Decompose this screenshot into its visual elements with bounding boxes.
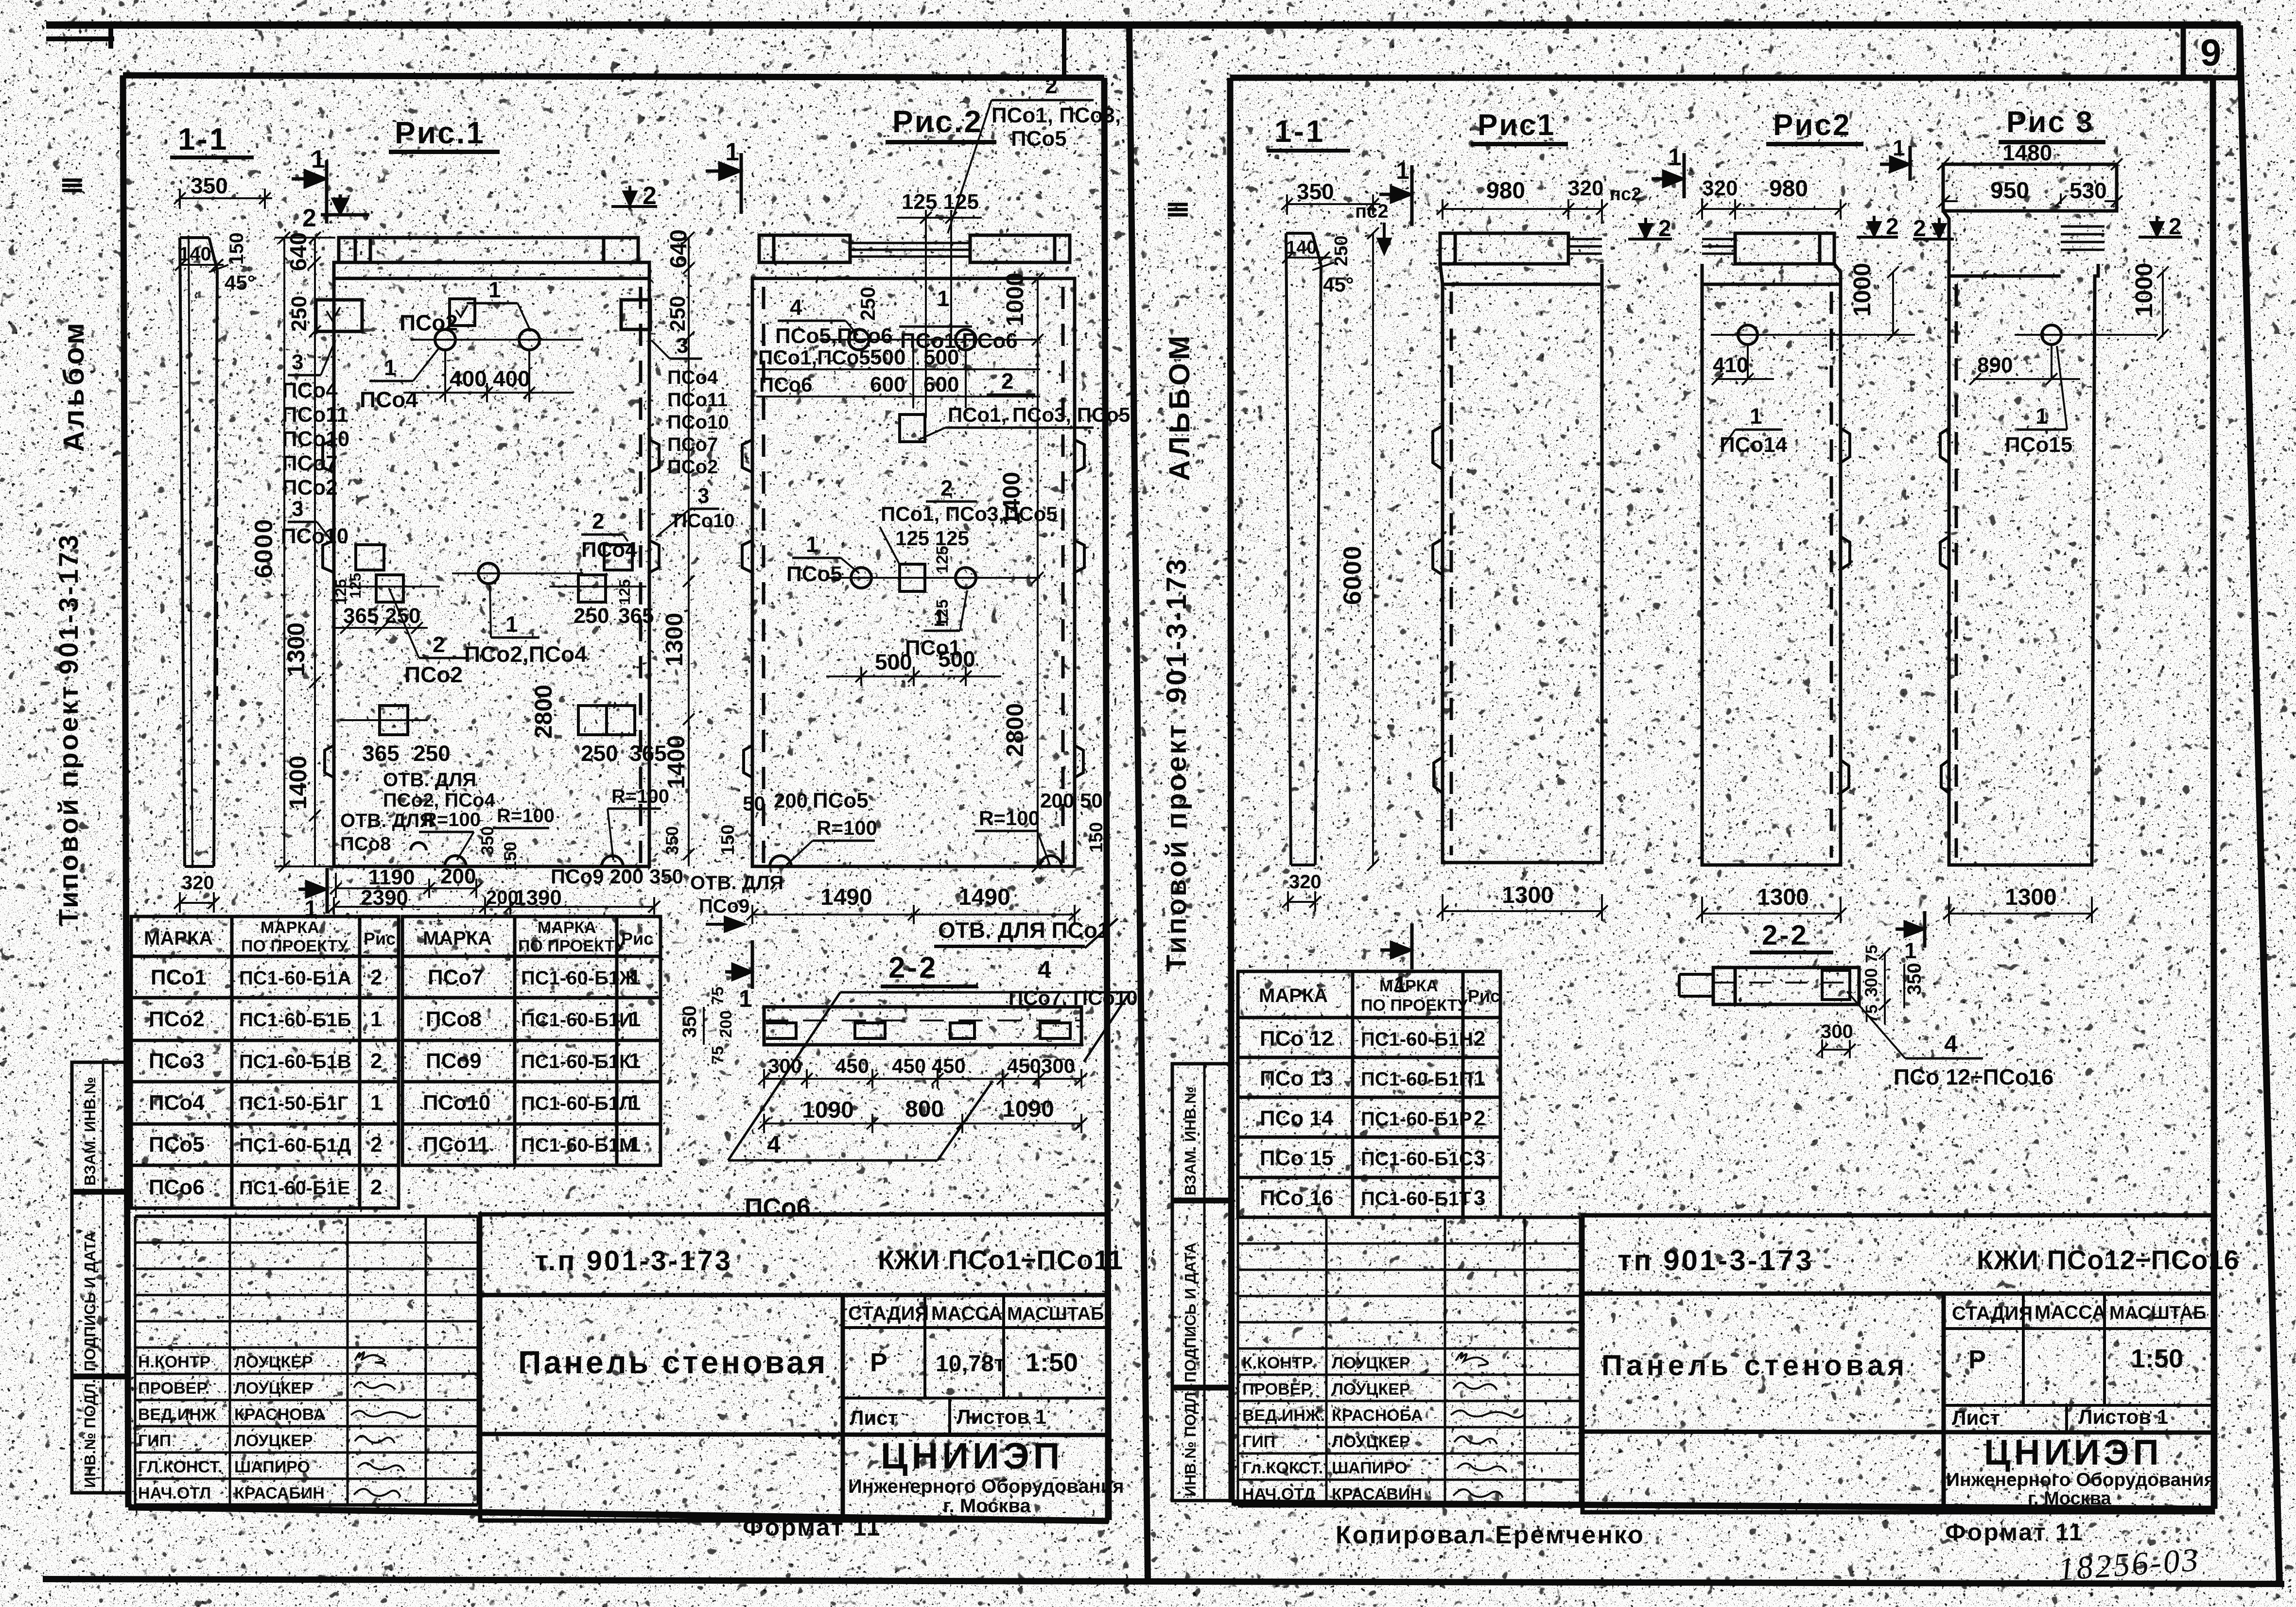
svg-text:6000: 6000 — [250, 518, 278, 578]
fig1 bottom small rotated dims — [477, 826, 497, 855]
svg-text:3: 3 — [292, 497, 303, 521]
r-fig2 cap hatch lines left — [1702, 239, 1735, 254]
svg-text:ПС1-60-Б1Д: ПС1-60-Б1Д — [239, 1135, 351, 1156]
r-fig2 main outline — [1702, 264, 1841, 865]
svg-text:ПСо6: ПСо6 — [149, 1175, 205, 1199]
svg-text:1:50: 1:50 — [2131, 1344, 2183, 1373]
svg-text:КРАСНОВА: КРАСНОВА — [234, 1405, 325, 1424]
svg-text:Панель стеновая: Панель стеновая — [1601, 1349, 1908, 1382]
svg-text:10,78т: 10,78т — [936, 1351, 1006, 1377]
RIGHT SHEET frame — [1230, 78, 2214, 1509]
fig2 dim 2800 rotated right — [1001, 703, 1028, 757]
svg-text:КЖИ ПСо12÷ПСо16: КЖИ ПСо12÷ПСо16 — [1977, 1244, 2240, 1275]
svg-text:Рис2: Рис2 — [1773, 108, 1851, 142]
svg-text:МАССА: МАССА — [2035, 1302, 2106, 1323]
r-fig3 bottom dim 1300 — [1943, 897, 2098, 923]
svg-text:Панель стеновая: Панель стеновая — [518, 1344, 828, 1380]
fig1 top cap — [339, 238, 638, 262]
r2-2 cup square — [1822, 970, 1850, 1000]
fig1 right key rect — [621, 300, 650, 329]
svg-text:1000: 1000 — [1848, 263, 1876, 317]
svg-text:ОТВ. ДЛЯ: ОТВ. ДЛЯ — [340, 810, 434, 831]
svg-text:ЛОУЦКЕР: ЛОУЦКЕР — [1332, 1354, 1410, 1372]
svg-text:125: 125 — [347, 573, 364, 599]
svg-text:ЛОУЦКЕР: ЛОУЦКЕР — [234, 1353, 313, 1371]
svg-text:200: 200 — [774, 789, 808, 812]
corner registration mark top-left — [46, 28, 114, 49]
svg-text:1: 1 — [1474, 1067, 1485, 1090]
svg-text:250: 250 — [1331, 236, 1352, 266]
svg-text:1000: 1000 — [1001, 273, 1028, 327]
table 1 ПСо1-ПСо6 — [131, 916, 399, 1208]
svg-text:тп 901-3-173: тп 901-3-173 — [1618, 1244, 1814, 1277]
svg-text:1: 1 — [937, 286, 950, 311]
r2-2 title — [1750, 919, 1833, 954]
fig1 label 1/ПСо2,ПСо4 center — [464, 586, 587, 667]
svg-text:ПС1-60-Б1Е: ПС1-60-Б1Е — [239, 1177, 350, 1199]
svg-text:2: 2 — [1474, 1106, 1485, 1130]
r-fig1 left edge notches — [1433, 426, 1443, 793]
r-fig1 top cap — [1440, 233, 1568, 264]
svg-text:МАРКА: МАРКА — [1259, 985, 1328, 1006]
r-fig3 top cap box with 950 530 — [1943, 164, 2117, 211]
svg-text:320: 320 — [1702, 176, 1738, 200]
dim 320 bottom right section — [1282, 891, 1321, 912]
svg-text:Листов 1: Листов 1 — [957, 1405, 1046, 1428]
dim 140 — [175, 259, 224, 271]
18256-03 handwritten — [2057, 1541, 2201, 1588]
svg-text:365: 365 — [618, 604, 654, 628]
fig2 bottom section mark 1 — [725, 940, 752, 989]
r-fig3 section mark 1 left — [1880, 146, 1910, 181]
svg-text:1: 1 — [1904, 938, 1917, 963]
svg-text:R=100: R=100 — [497, 805, 555, 827]
right section 1-1 drawing — [1286, 233, 1321, 865]
fig1 dim 2800 rotated — [530, 685, 557, 739]
svg-text:ПСо7: ПСо7 — [282, 451, 338, 475]
svg-text:ПСо2,ПСо4: ПСо2,ПСо4 — [464, 641, 587, 667]
page number 9 box — [2181, 25, 2242, 79]
svg-text:Формат 11: Формат 11 — [1945, 1519, 2084, 1546]
svg-text:350: 350 — [477, 826, 497, 855]
svg-text:200: 200 — [1040, 789, 1074, 812]
svg-text:410: 410 — [1713, 353, 1748, 377]
svg-text:Альбом: Альбом — [57, 320, 90, 452]
svg-text:R=100: R=100 — [979, 807, 1040, 829]
2-2 left dim line — [693, 1001, 763, 1045]
svg-text:МАРКА: МАРКА — [144, 928, 213, 949]
svg-text:Формат 11: Формат 11 — [743, 1514, 881, 1541]
svg-text:ПСо5: ПСо5 — [1011, 127, 1067, 151]
section cut mark down-2 left of fig2 — [611, 186, 657, 207]
ОТВ. ДЛЯ ПСо9 label left of fig2 bottom — [690, 872, 783, 917]
svg-text:R=100: R=100 — [817, 816, 877, 839]
svg-text:ПС1-60-Б1Н: ПС1-60-Б1Н — [1361, 1029, 1473, 1050]
svg-text:ПСо10: ПСо10 — [423, 1091, 490, 1115]
svg-text:75: 75 — [1862, 945, 1881, 963]
fig2 bottom labels right R=100 200 50 — [975, 807, 1050, 865]
r-fig1 bottom dim 1300 — [1437, 894, 1608, 921]
svg-text:Типовой проект 901-3-173: Типовой проект 901-3-173 — [53, 533, 84, 926]
r-fig3 dim 1480 — [1937, 158, 2122, 170]
svg-text:125 125: 125 125 — [902, 190, 979, 214]
svg-text:ПОДПИСЬ И ДАТА: ПОДПИСЬ И ДАТА — [1182, 1243, 1199, 1382]
svg-text:ПСо4: ПСо4 — [360, 387, 418, 412]
svg-text:50: 50 — [1080, 789, 1103, 812]
svg-text:400: 400 — [493, 366, 530, 391]
svg-text:400: 400 — [450, 366, 487, 391]
fig1 main outline — [334, 262, 649, 866]
svg-text:ПСо5: ПСо5 — [149, 1133, 205, 1157]
2-2 bar — [764, 1007, 1081, 1045]
svg-text:ПСо 14: ПСо 14 — [1260, 1106, 1334, 1130]
svg-text:ПСо14: ПСо14 — [1720, 433, 1788, 457]
r-fig1 main outline — [1440, 264, 1602, 863]
svg-text:2: 2 — [370, 1133, 382, 1157]
svg-text:ГИП: ГИП — [1242, 1433, 1275, 1451]
svg-text:320: 320 — [1289, 871, 1322, 893]
svg-text:ПСо 16: ПСо 16 — [1260, 1186, 1333, 1210]
svg-text:1: 1 — [629, 966, 641, 989]
svg-text:ГЛ.КОНСТ.: ГЛ.КОНСТ. — [138, 1458, 223, 1476]
svg-text:1300: 1300 — [1757, 884, 1809, 910]
fig2 dim 1400 rotated right — [998, 472, 1025, 526]
svg-text:1: 1 — [725, 138, 739, 166]
svg-text:1: 1 — [806, 532, 818, 557]
svg-text:МАРКА: МАРКА — [538, 918, 596, 937]
svg-text:ПСо 12÷ПСо16: ПСо 12÷ПСо16 — [1894, 1064, 2053, 1089]
r2-2 bottom dim 300 — [1816, 1040, 1856, 1058]
svg-text:500: 500 — [875, 649, 912, 674]
svg-text:Лист: Лист — [850, 1406, 898, 1429]
svg-text:3: 3 — [1474, 1186, 1485, 1210]
r-fig2 bottom dim 1300 — [1696, 897, 1846, 923]
fig1 middle-left detail squares — [335, 545, 440, 602]
svg-text:ВЕД.ИНЖ: ВЕД.ИНЖ — [138, 1405, 216, 1424]
fig1 right dim chain rotated labels — [666, 229, 692, 268]
svg-text:450: 450 — [835, 1054, 869, 1077]
svg-text:1400: 1400 — [284, 756, 312, 810]
svg-text:ПСо4: ПСо4 — [282, 379, 338, 402]
svg-text:ПО ПРОЕКТУ: ПО ПРОЕКТУ — [1361, 996, 1468, 1015]
svg-text:125: 125 — [616, 579, 633, 605]
svg-text:1-1: 1-1 — [1274, 114, 1325, 149]
fig2 1000 rotated right — [1001, 273, 1028, 327]
svg-text:1390: 1390 — [514, 886, 562, 910]
section cut mark 2 above fig1 — [321, 194, 369, 215]
svg-text:250: 250 — [385, 604, 420, 628]
svg-text:2: 2 — [1886, 214, 1899, 240]
fig1 right stack labels ПСо4..ПСо2 — [667, 367, 729, 478]
fig1 left key rect 250 — [316, 300, 362, 331]
svg-text:ВЗАМ. ИНВ.№: ВЗАМ. ИНВ.№ — [1182, 1087, 1199, 1195]
svg-text:ПСо5: ПСо5 — [813, 789, 869, 812]
svg-text:ПСо9: ПСо9 — [426, 1049, 482, 1073]
left section 1-1 drawing — [180, 238, 217, 866]
svg-text:ПСо5,ПСо6: ПСо5,ПСо6 — [775, 324, 893, 348]
svg-text:ИНВ.№ ПОДЛ.: ИНВ.№ ПОДЛ. — [81, 1379, 99, 1488]
svg-text:ПС1-60-Б1Р: ПС1-60-Б1Р — [1361, 1108, 1472, 1130]
svg-text:ПС1-60-Б1Т: ПС1-60-Б1Т — [1361, 1188, 1471, 1210]
fig1 left dim chain rotated labels — [286, 232, 312, 271]
LEFT SHEET frame — [123, 75, 1109, 1521]
svg-text:1: 1 — [505, 611, 518, 637]
svg-text:ПОДПИСЬ И ДАТА: ПОДПИСЬ И ДАТА — [81, 1231, 99, 1371]
2-2 dims row1 300 450 450 450 450 300 — [758, 1069, 1087, 1089]
svg-text:НАЧ.ОТЛ: НАЧ.ОТЛ — [138, 1484, 211, 1503]
svg-text:2390: 2390 — [361, 886, 408, 910]
r-fig1 section mark 1 top — [1652, 153, 1684, 198]
svg-text:ПСо10: ПСо10 — [667, 412, 729, 433]
table 2 ПСо7-ПСо11 — [402, 916, 661, 1165]
fig1 bottom dim row2 — [328, 897, 660, 915]
svg-text:640: 640 — [286, 232, 312, 271]
svg-text:К.КОНТР: К.КОНТР — [1242, 1354, 1313, 1372]
fig1 label 2/ПСо4 right — [581, 508, 637, 562]
svg-text:1090: 1090 — [1002, 1096, 1054, 1122]
svg-text:ПСо11: ПСо11 — [423, 1133, 489, 1157]
fig1 label 2/ПСо2 — [389, 588, 467, 687]
page divider between sheets — [1126, 25, 1151, 1579]
fig2 small 125 rotated labels — [933, 546, 952, 573]
fig2 label 1/ПСо5 — [786, 532, 859, 586]
svg-text:СТАДИЯ: СТАДИЯ — [1952, 1303, 2033, 1324]
svg-text:КРАСАВИН: КРАСАВИН — [1332, 1485, 1422, 1503]
svg-text:ПСо2: ПСо2 — [149, 1007, 205, 1031]
svg-text:3: 3 — [697, 484, 709, 508]
svg-text:320: 320 — [1568, 176, 1603, 200]
svg-text:140: 140 — [179, 243, 211, 265]
svg-text:980: 980 — [1769, 176, 1808, 202]
fig1 label 1/ПСо2 — [400, 277, 531, 335]
svg-text:350: 350 — [662, 826, 682, 855]
svg-text:250: 250 — [581, 741, 618, 766]
title Рис.1 — [389, 115, 500, 154]
svg-text:1: 1 — [1750, 403, 1762, 429]
svg-text:2: 2 — [1658, 216, 1671, 242]
dim 320 bottom of section — [174, 892, 220, 913]
fig2 dim 250 rotated — [856, 287, 879, 321]
svg-text:ПСо7: ПСо7 — [667, 434, 718, 455]
svg-text:1: 1 — [629, 1049, 641, 1073]
fig2 rows ПСо1,ПСо5 500 500 — [756, 346, 1040, 408]
fig2 cap middle recess lines — [850, 243, 970, 257]
svg-text:ИНВ.№ ПОДЛ.: ИНВ.№ ПОДЛ. — [1182, 1388, 1199, 1497]
svg-text:ПСо1, ПСо3,ПСо5: ПСо1, ПСо3,ПСо5 — [881, 502, 1058, 525]
svg-text:75: 75 — [709, 986, 727, 1005]
svg-text:350: 350 — [1904, 963, 1925, 995]
svg-text:1: 1 — [629, 1007, 641, 1031]
svg-text:Р: Р — [1968, 1345, 1986, 1374]
svg-text:1490: 1490 — [820, 884, 872, 910]
svg-text:КЖИ ПСо1÷ПСо11: КЖИ ПСо1÷ПСо11 — [878, 1244, 1123, 1275]
svg-text:ПРОВЕР.: ПРОВЕР. — [1242, 1380, 1314, 1399]
svg-text:ПС1-60-Б1С: ПС1-60-Б1С — [1361, 1148, 1473, 1170]
fig1 small 125 labels — [332, 579, 349, 605]
svg-text:2: 2 — [1474, 1027, 1485, 1051]
svg-text:ПСо9 200 350: ПСо9 200 350 — [551, 865, 683, 888]
svg-text:Инженерного Оборудования: Инженерного Оборудования — [1946, 1469, 2215, 1490]
short divider top-left page right border — [1062, 25, 1066, 79]
r-fig2 right edge notches — [1841, 428, 1850, 793]
svg-text:1:50: 1:50 — [1026, 1348, 1078, 1377]
svg-text:МАСШТАБ: МАСШТАБ — [2109, 1303, 2206, 1323]
svg-text:Копировал Еремченко: Копировал Еремченко — [1336, 1521, 1645, 1549]
r-fig3 label 1/ПСо15 — [2005, 346, 2072, 457]
svg-text:2: 2 — [433, 632, 445, 657]
svg-text:АЛЬБОМ: АЛЬБОМ — [1163, 333, 1196, 481]
svg-text:ПС1-60-Б1Б: ПС1-60-Б1Б — [239, 1009, 351, 1031]
r-fig3 cap hatch right — [2061, 226, 2105, 250]
r2-2 label 4 / ПСо12÷ПСо16 — [1847, 991, 2053, 1089]
svg-text:1: 1 — [1893, 135, 1905, 160]
r2-2 bottom section mark of fig2 — [1896, 911, 1925, 948]
svg-text:4: 4 — [790, 294, 802, 320]
left margin rotated text: album III left page — [57, 176, 90, 452]
r-fig3 mark ↓2 right — [2139, 216, 2182, 237]
fig2 bottom 150 rotated dims — [718, 825, 738, 855]
svg-text:365: 365 — [362, 741, 400, 766]
svg-text:ВЗАМ. ИНВ.№: ВЗАМ. ИНВ.№ — [81, 1077, 99, 1186]
dim 150 rotated — [226, 232, 247, 265]
svg-text:ПС1-60-Б1А: ПС1-60-Б1А — [239, 968, 351, 989]
left margin stamp boxes — [72, 1062, 127, 1493]
svg-text:ПСо9: ПСо9 — [699, 896, 749, 917]
section cut mark 1 above fig2 — [706, 153, 741, 214]
svg-text:300: 300 — [1821, 1021, 1853, 1042]
svg-text:1090: 1090 — [802, 1097, 854, 1123]
svg-text:1: 1 — [739, 985, 752, 1012]
fig1 label 1/ПСо4 — [360, 347, 440, 412]
svg-text:ПСо4: ПСо4 — [667, 367, 718, 388]
svg-text:пс2: пс2 — [1610, 184, 1641, 205]
section cut mark 1 above fig1 — [292, 160, 327, 224]
section mark 1 right top — [1379, 165, 1412, 226]
svg-text:Р: Р — [870, 1348, 887, 1377]
svg-text:1: 1 — [384, 355, 397, 380]
svg-text:Рис.2: Рис.2 — [892, 104, 983, 139]
ОТВ. ДЛЯ ПСо1 label — [934, 917, 1118, 948]
svg-text:R=100: R=100 — [611, 786, 669, 807]
svg-text:50: 50 — [743, 792, 765, 815]
svg-text:Листов 1: Листов 1 — [2078, 1405, 2168, 1428]
svg-text:2800: 2800 — [1001, 703, 1028, 757]
svg-text:ПСо 12: ПСо 12 — [1260, 1027, 1333, 1051]
svg-text:45°: 45° — [1323, 273, 1354, 296]
svg-text:250: 250 — [287, 296, 311, 331]
svg-text:МАРКА: МАРКА — [261, 918, 319, 937]
svg-text:ПСо1: ПСо1 — [151, 966, 207, 989]
svg-text:Инженерного Оборудования: Инженерного Оборудования — [848, 1476, 1124, 1497]
dim 6000 rotated — [250, 518, 278, 578]
svg-text:9: 9 — [2200, 31, 2221, 74]
fig2 mid label 2 ПСо1 ПСо3 ПСо5 — [880, 475, 1058, 564]
2-2 dims row2 1090 800 1090 — [758, 1114, 1087, 1133]
svg-text:1480: 1480 — [2002, 140, 2052, 165]
svg-text:ПРОВЕР.: ПРОВЕР. — [138, 1379, 209, 1398]
svg-text:350: 350 — [679, 1005, 700, 1038]
svg-text:2: 2 — [1045, 73, 1058, 98]
fig2 right edge notches — [1075, 440, 1084, 778]
svg-text:500: 500 — [870, 346, 905, 369]
right sheet margin rotated text: album III — [1163, 201, 1196, 481]
fig2 left edge notches — [742, 440, 752, 778]
svg-text:ЛОУЦКЕР: ЛОУЦКЕР — [1332, 1433, 1410, 1451]
svg-text:ПСо4: ПСо4 — [581, 538, 637, 562]
svg-text:ПСо 13: ПСо 13 — [1260, 1067, 1333, 1090]
fig2 label 4 / ПСо5,ПСо6 — [775, 294, 893, 348]
svg-text:125 125: 125 125 — [895, 527, 969, 550]
svg-text:2800: 2800 — [530, 685, 557, 739]
svg-text:150: 150 — [718, 825, 738, 855]
svg-text:ЛОУЦКЕР: ЛОУЦКЕР — [1332, 1380, 1410, 1399]
svg-text:1490: 1490 — [958, 884, 1010, 910]
svg-text:ПСо 15: ПСо 15 — [1260, 1146, 1333, 1170]
svg-text:75: 75 — [709, 1046, 727, 1064]
svg-text:150: 150 — [226, 232, 247, 265]
svg-text:Ⅲ: Ⅲ — [1164, 201, 1193, 219]
svg-text:г. Москва: г. Москва — [943, 1495, 1031, 1517]
svg-text:ПСо1,ПСо5: ПСо1,ПСо5 — [758, 346, 870, 369]
fig2 mid small rect — [900, 564, 925, 591]
svg-text:3: 3 — [292, 350, 303, 374]
r2-2 dims right rotated — [1862, 945, 1881, 963]
svg-text:250: 250 — [666, 296, 690, 331]
svg-text:ПСо1, ПСо3, ПСо5: ПСо1, ПСо3, ПСо5 — [948, 403, 1130, 426]
fig1 left dim chain line — [309, 232, 321, 866]
r-fig2 1000 rotated — [1848, 263, 1876, 317]
svg-text:ПСо15: ПСо15 — [2005, 433, 2072, 457]
fig2 center small rect top — [900, 415, 925, 442]
svg-text:ПО ПРОЕКТУ: ПО ПРОЕКТУ — [241, 937, 348, 955]
svg-text:Рис: Рис — [1468, 986, 1500, 1006]
fig1 small anchor rect with tick — [450, 299, 475, 326]
svg-text:ЛОУЦКЕР: ЛОУЦКЕР — [234, 1432, 313, 1450]
svg-text:ПСо10: ПСо10 — [673, 510, 735, 532]
svg-text:530: 530 — [2070, 178, 2107, 203]
svg-text:ПСо7, ПСо10: ПСо7, ПСо10 — [1009, 986, 1138, 1009]
r-fig3 circle — [2015, 325, 2158, 379]
fig1 left edge notches — [323, 440, 334, 778]
svg-text:ШАПИРО: ШАПИРО — [1332, 1459, 1408, 1477]
fig1 label 3/ПСо10 — [281, 497, 348, 548]
svg-text:6000: 6000 — [1339, 545, 1367, 605]
svg-text:ЛОУЦКЕР: ЛОУЦКЕР — [234, 1379, 313, 1398]
fig2 top circles — [821, 329, 1040, 350]
fig1 left stack labels 3 ПСо4 ПСо11 ПСо10 ПСо7 ПСо2 — [282, 350, 349, 500]
left margin rotated text: project left page — [53, 533, 84, 926]
2-2 parallelogram outline — [728, 992, 1130, 1160]
svg-text:2: 2 — [370, 1049, 382, 1073]
svg-text:150: 150 — [1086, 822, 1107, 853]
svg-text:ПСо8: ПСо8 — [340, 833, 391, 855]
svg-text:ПСо6: ПСо6 — [759, 373, 813, 396]
title Рис2 right — [1766, 108, 1863, 146]
svg-text:2-2: 2-2 — [888, 951, 938, 985]
svg-text:1-1: 1-1 — [178, 121, 229, 156]
r2-2 left stub — [1679, 974, 1713, 996]
r-fig1 2 arrows top — [1628, 218, 1672, 239]
fig1 lower-right squares — [578, 706, 635, 735]
r-fig2 circle — [1711, 325, 1876, 379]
r-fig1 cap hatch lines right — [1568, 239, 1602, 254]
svg-text:ОТВ. ДЛЯ ПСо1: ОТВ. ДЛЯ ПСо1 — [938, 917, 1110, 943]
r-fig2 label 1/ПСо14 — [1720, 403, 1788, 457]
svg-text:ПО ПРОЕКТУ: ПО ПРОЕКТУ — [518, 937, 625, 955]
svg-text:МАССА: МАССА — [931, 1303, 1003, 1324]
svg-text:125: 125 — [933, 546, 952, 573]
svg-text:1: 1 — [2035, 403, 2048, 429]
